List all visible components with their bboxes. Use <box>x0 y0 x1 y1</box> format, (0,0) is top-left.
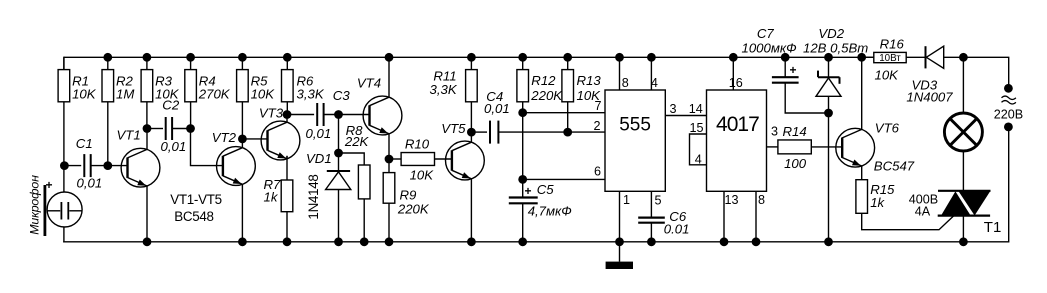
svg-text:C7: C7 <box>757 26 775 41</box>
capacitor C6 <box>638 209 689 237</box>
wire R12 bottom through pin7/pin6 nodes to C5 <box>522 102 524 198</box>
svg-text:1N4148: 1N4148 <box>306 174 321 219</box>
svg-text:R9: R9 <box>400 188 418 203</box>
counter U2 4017 <box>689 76 778 207</box>
resistor R5 <box>237 57 276 102</box>
op-amp timer U1 555 <box>593 76 665 207</box>
wire VD2 top lead <box>828 57 830 77</box>
wire R4 bottom to node D <box>190 102 192 129</box>
junction top rail at R3 <box>143 53 152 62</box>
junction ground rail at VT1 emitter <box>143 237 152 246</box>
microphone BM1 (Микрофон) <box>27 175 82 236</box>
wire node I to R9 top <box>388 159 390 173</box>
svg-text:3,3K: 3,3K <box>297 87 325 102</box>
triac T1 <box>909 191 1002 236</box>
svg-text:3: 3 <box>771 125 778 139</box>
label pin numbers 3-14 <box>669 102 702 116</box>
svg-text:0,01: 0,01 <box>77 175 103 190</box>
wire lamp top lead <box>962 57 964 113</box>
wire 4017 pin 13 to ground <box>723 191 725 242</box>
wire R3 bottom to VT1 collector node <box>146 102 148 129</box>
svg-text:T1: T1 <box>984 219 1002 236</box>
svg-text:VT1-VT5: VT1-VT5 <box>170 192 221 207</box>
wire C4 right to 555 pin 2 <box>499 131 605 133</box>
svg-text:13: 13 <box>724 193 738 207</box>
svg-text:+: + <box>46 178 53 192</box>
wire C1 right to VT1 base <box>91 165 128 167</box>
wire R9 bottom to ground <box>388 203 390 242</box>
svg-text:C1: C1 <box>76 136 93 151</box>
svg-text:R13: R13 <box>577 73 602 88</box>
node C junction R3/C2/VT1 collector <box>143 124 152 133</box>
resistor R12 <box>517 57 563 103</box>
wire 4017 pin 16 to rail <box>732 57 734 90</box>
svg-text:220K: 220K <box>397 202 430 217</box>
svg-text:VT3: VT3 <box>259 106 284 121</box>
svg-text:C3: C3 <box>333 88 351 103</box>
wire node G down to VD1/R8 node <box>338 115 340 172</box>
transistor VT1 <box>117 128 160 242</box>
wire C4 left lead <box>471 131 487 133</box>
wire R10 to VT5 base <box>435 158 453 160</box>
svg-text:22K: 22K <box>344 134 370 149</box>
node G junction C3/VT4 base/VD1-R8 branch <box>334 110 343 119</box>
wire 4017 pin 3 to R14 <box>767 146 778 148</box>
junction ground rail at VD2 anode <box>824 237 833 246</box>
junction ground rail at 555 pin1 <box>615 237 624 246</box>
svg-text:0,01: 0,01 <box>484 101 510 116</box>
wire rail to R16 <box>862 56 874 58</box>
resistor R9 <box>383 173 430 217</box>
resistor R8 <box>344 123 370 199</box>
svg-text:R16: R16 <box>880 37 905 52</box>
capacitor C3 <box>306 88 351 141</box>
svg-text:10K: 10K <box>410 167 435 182</box>
junction top rail at VD2 <box>824 53 833 62</box>
wire 555 pin 6 <box>523 178 605 180</box>
node E junction R5/VT2 collector/VT3 base <box>238 135 247 144</box>
wire node D down and right to VT2 base <box>191 129 223 166</box>
resistor R6 <box>282 57 325 102</box>
wire R5 bottom to VT2 collector node <box>241 102 243 139</box>
node N junction C7/VD2 column <box>824 109 833 118</box>
svg-text:4,7мкФ: 4,7мкФ <box>528 204 572 219</box>
ground <box>606 242 633 269</box>
wire C7 top lead <box>784 57 786 77</box>
svg-text:VT2: VT2 <box>212 130 237 145</box>
junction top rail at R4 <box>186 53 195 62</box>
node O lamp branch on rail <box>959 53 968 62</box>
svg-text:R12: R12 <box>531 73 556 88</box>
wire left rail down to R1 and microphone <box>63 57 65 193</box>
transistor VT6 <box>811 57 914 179</box>
junction top rail at 555 pin8 <box>615 53 624 62</box>
wire bottom ground rail <box>63 241 1009 243</box>
node D junction R4/C2 <box>186 124 195 133</box>
svg-text:R10: R10 <box>405 137 430 152</box>
junction top rail at 555 pin4 <box>647 53 656 62</box>
AC terminal bottom <box>1004 123 1013 132</box>
wire VT3 emitter to R7 <box>286 156 288 180</box>
wire node H to R8 top <box>339 153 365 165</box>
svg-text:+: + <box>525 184 532 198</box>
wire 555 pin 7 <box>523 112 605 114</box>
wire R16 to VD3 <box>906 56 925 58</box>
junction top rail at R5 <box>238 53 247 62</box>
wire R8 bottom to ground <box>363 199 365 242</box>
svg-text:10Вт: 10Вт <box>879 53 901 64</box>
svg-text:14: 14 <box>689 102 703 116</box>
wire C7 bottom to VD2 anode node <box>785 83 828 113</box>
svg-text:BC547: BC547 <box>874 159 915 174</box>
svg-text:1M: 1M <box>116 87 134 102</box>
svg-text:7: 7 <box>594 99 601 113</box>
svg-text:VT4: VT4 <box>357 76 381 91</box>
wire C3 right to VT4 base <box>324 114 370 116</box>
junction top rail at VT4 collector <box>385 53 394 62</box>
junction ground rail at C6 <box>647 237 656 246</box>
svg-text:VD2: VD2 <box>818 26 844 41</box>
svg-text:1N4007: 1N4007 <box>906 90 953 105</box>
svg-text:555: 555 <box>619 114 651 135</box>
svg-text:R14: R14 <box>783 124 807 139</box>
node H junction VD1/R8 <box>334 149 343 158</box>
wire C2 left lead <box>147 128 163 130</box>
lamp HL1 <box>944 113 982 151</box>
transistor VT2 <box>212 130 256 242</box>
node F junction R6/C3/VT3 collector <box>283 110 292 119</box>
svg-text:10K: 10K <box>72 87 97 102</box>
svg-text:Микрофон: Микрофон <box>27 175 41 235</box>
svg-text:6: 6 <box>594 165 601 179</box>
junction ground rail at triac <box>959 237 968 246</box>
svg-text:VT6: VT6 <box>875 121 900 136</box>
wire C2 right lead <box>172 128 190 130</box>
resistor R2 <box>102 57 134 102</box>
svg-text:VD1: VD1 <box>306 151 332 166</box>
svg-text:4А: 4А <box>915 204 931 218</box>
wire lamp bottom to triac <box>962 151 964 191</box>
wire AC bottom terminal to ground rail <box>1008 127 1010 243</box>
node I junction VT4 emitter/R9/R10 <box>385 155 394 164</box>
wire R7 bottom to ground <box>286 212 288 242</box>
zener diode VD2 <box>803 26 868 97</box>
AC terminal top <box>1004 84 1013 93</box>
svg-text:8: 8 <box>758 193 765 207</box>
svg-text:5: 5 <box>654 193 661 207</box>
diode VD1 <box>306 151 351 242</box>
wire R13 bottom to pin2 wire <box>567 102 569 132</box>
AC source 220V label <box>994 96 1023 121</box>
svg-text:16: 16 <box>729 76 743 90</box>
resistor R14 <box>778 124 811 171</box>
svg-text:4017: 4017 <box>716 113 759 136</box>
resistor R11 <box>430 57 478 102</box>
label VT1-VT5 common type <box>170 192 221 224</box>
wire rail to AC top terminal <box>963 57 1008 88</box>
svg-text:0,01: 0,01 <box>306 126 332 141</box>
capacitor C4 <box>484 89 510 144</box>
node L junction column/555 pin 6 <box>518 175 527 184</box>
svg-text:1000мкФ: 1000мкФ <box>742 40 797 55</box>
wire node I to R10 <box>389 158 401 160</box>
junction ground rail at R8 <box>360 237 369 246</box>
capacitor C1 <box>76 136 102 191</box>
node M junction R13/pin2 wire <box>563 128 572 137</box>
svg-text:10K: 10K <box>875 68 900 83</box>
resistor R7 <box>264 177 293 212</box>
wire C1 left lead <box>64 165 81 167</box>
node K junction R12/555 pin 7 <box>518 108 527 117</box>
node B junction R2/C1/VT1 base <box>103 161 112 170</box>
wire C5 bottom to ground <box>522 203 524 242</box>
junction top rail at R2 <box>103 53 112 62</box>
junction top rail at VT6 collector <box>857 53 866 62</box>
wire R15 bottom to triac gate <box>862 213 954 229</box>
svg-text:3: 3 <box>669 102 676 116</box>
junction ground rail at R7 <box>283 237 292 246</box>
svg-text:10K: 10K <box>251 87 276 102</box>
svg-text:1k: 1k <box>870 195 885 210</box>
svg-text:0,01: 0,01 <box>161 139 187 154</box>
junction top rail at R12 <box>518 53 527 62</box>
junction top rail at R6 <box>283 53 292 62</box>
junction ground rail at 4017 pin13 <box>720 237 729 246</box>
transistor VT3 <box>242 106 300 160</box>
svg-text:8: 8 <box>622 76 629 90</box>
svg-text:2: 2 <box>593 119 600 133</box>
node A junction R1/C1/mic <box>60 161 69 170</box>
svg-text:1: 1 <box>623 193 630 207</box>
resistor R15 <box>856 180 895 214</box>
wire 555 pin 3 to 4017 pin 14 <box>665 115 706 117</box>
transistor VT5 <box>441 121 484 242</box>
wire R2 bottom to VT1 base node <box>107 102 109 166</box>
wire 4017 pin 15 to pin 4 loop <box>690 134 707 165</box>
junction ground rail at 4017 pin8 <box>752 237 761 246</box>
junction top rail at 4017 pin16 <box>729 53 738 62</box>
svg-text:VT1: VT1 <box>117 128 141 143</box>
wire 555 pin 1 to ground <box>619 191 621 242</box>
junction ground rail at C5 <box>518 237 527 246</box>
svg-text:220В: 220В <box>994 107 1023 121</box>
junction top rail at C7 <box>781 53 790 62</box>
junction ground rail at VT2 emitter <box>238 237 247 246</box>
svg-text:VT5: VT5 <box>441 121 466 136</box>
svg-text:1k: 1k <box>264 190 279 205</box>
wire VD2 anode to ground rail <box>828 96 830 242</box>
wire R11 bottom to VT5 collector node <box>470 102 472 132</box>
svg-text:100: 100 <box>784 156 807 171</box>
wire 555 pin 5 to C6 <box>650 191 652 217</box>
junction top rail at R13 <box>563 53 572 62</box>
resistor R3 <box>141 57 180 102</box>
wire triac to ground rail <box>962 216 964 242</box>
wire top +12V rail <box>64 56 874 58</box>
resistor R4 <box>185 57 231 102</box>
transistor VT4 <box>357 57 402 159</box>
svg-text:+: + <box>790 63 797 77</box>
svg-text:12В 0,5Вт: 12В 0,5Вт <box>803 40 868 55</box>
svg-text:270K: 270K <box>198 87 231 102</box>
node J junction R11/C4/VT5 collector <box>467 128 476 137</box>
svg-text:220K: 220K <box>530 88 563 103</box>
svg-text:3,3K: 3,3K <box>430 82 458 97</box>
svg-text:C5: C5 <box>537 182 555 197</box>
resistor R16 <box>874 37 906 83</box>
resistor R1 <box>58 57 97 102</box>
wire 4017 pin 8 to ground <box>755 191 757 242</box>
wire microphone bottom to ground rail <box>63 227 65 243</box>
svg-text:C2: C2 <box>162 98 180 113</box>
svg-text:0.01: 0.01 <box>664 222 690 237</box>
diode VD3 <box>906 46 963 104</box>
resistor R10 <box>401 137 434 183</box>
wire R6 bottom to VT3 collector node <box>286 102 288 115</box>
junction top rail at R11 <box>467 53 476 62</box>
wire 555 pin 4 to rail <box>650 57 652 90</box>
wire C3 left lead <box>287 114 314 116</box>
capacitor C2 <box>161 98 187 154</box>
wire C6 bottom to ground <box>650 223 652 242</box>
svg-text:15: 15 <box>689 121 703 135</box>
capacitor C5 <box>509 182 572 219</box>
wire 555 pin 8 to rail <box>619 57 621 90</box>
resistor R13 <box>562 57 601 103</box>
junction ground rail at VT5 emitter <box>467 237 476 246</box>
junction ground rail at R9 <box>385 237 394 246</box>
svg-text:BC548: BC548 <box>174 209 213 224</box>
junction ground rail at VD1 <box>334 237 343 246</box>
capacitor C7 <box>742 26 799 83</box>
